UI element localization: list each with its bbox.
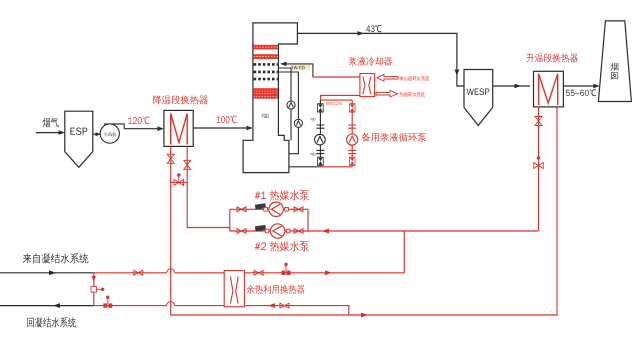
wire: flue gas inlet bbox=[36, 132, 62, 134]
label: ESP text bbox=[70, 128, 87, 135]
wire: hot water to heating HX (bottom line) bbox=[171, 107, 557, 315]
label: label 余热利用换热器 bbox=[247, 285, 305, 294]
heating HX box (升温段换热器) bbox=[534, 71, 564, 107]
valve P1 suction bbox=[237, 207, 246, 212]
wire: slurry pump column (black) bbox=[319, 100, 321, 167]
hot media pump #1 bbox=[269, 202, 283, 216]
flange pair (black bottom) bbox=[316, 150, 324, 153]
wire: ESP to fan bbox=[93, 133, 97, 135]
valve on red column (bottom) bbox=[349, 157, 355, 165]
label: label 浆液冷却器 bbox=[349, 57, 393, 66]
label: tag ND1 bbox=[311, 118, 316, 121]
label: label #1 热媒水泵 bbox=[255, 190, 309, 201]
wire: circulation pump riser 2 bbox=[278, 72, 298, 119]
control valve on supply bbox=[282, 271, 286, 275]
label: 43℃ label bbox=[366, 25, 381, 32]
control valve on jumper bbox=[174, 179, 184, 185]
label: label 来自凝结水系统 bbox=[23, 253, 89, 263]
label: tag text bbox=[291, 66, 304, 69]
hot media pump #2 bbox=[270, 224, 284, 238]
WESP vessel bbox=[464, 70, 493, 126]
label: tag ND2 bbox=[311, 153, 316, 156]
wire: backup pump column (red) bbox=[351, 100, 353, 167]
label: flue gas 烟气 bbox=[43, 118, 59, 128]
valve P2 discharge bbox=[294, 229, 303, 234]
valve on black column (top) bbox=[318, 104, 324, 112]
wire: heating HX left leg down bbox=[538, 107, 540, 231]
tower packing band (thick red) bbox=[254, 88, 278, 99]
valve on right leg bbox=[184, 160, 191, 169]
wire: HX to tower, 100℃ bbox=[193, 127, 249, 129]
wire: makeup drop bbox=[93, 273, 95, 306]
wire: condensate return (red part) bbox=[94, 306, 349, 315]
waste heat HX box 余热利用换热器 bbox=[224, 271, 244, 307]
instrument tag on recycle line bbox=[291, 65, 311, 70]
valve on return bbox=[280, 303, 289, 308]
tower demister band 2 bbox=[254, 71, 278, 74]
fan 引风机 bbox=[100, 124, 119, 143]
valve on left leg bbox=[167, 154, 174, 163]
wire: condensate supply (red part) bbox=[94, 231, 405, 273]
valve on red column (top) bbox=[349, 104, 355, 112]
label: 100℃ label bbox=[217, 116, 237, 124]
wire: cooler outlet down (red) bbox=[321, 95, 360, 100]
wire: heating HX to chimney, 55~60℃ bbox=[563, 85, 596, 87]
wire: cooling HX left leg (red) bbox=[170, 146, 172, 315]
label: label 备用浆液循环泵 bbox=[362, 133, 427, 142]
label: WESP text bbox=[467, 88, 490, 95]
label: label 降温段换热器 bbox=[153, 95, 208, 104]
wire: pump 2 branch / common suction line bbox=[230, 230, 539, 232]
control valve on return bbox=[103, 303, 107, 307]
wire: condensate return (black part) bbox=[0, 305, 94, 307]
wire: legs jumper bbox=[171, 181, 188, 183]
label: label 来自循环水系统 bbox=[400, 76, 430, 81]
tower demister band 3 bbox=[254, 78, 278, 81]
label: 55~60℃ label bbox=[566, 89, 596, 96]
label: label 升温段换热器 bbox=[526, 53, 578, 62]
label: label #2 热媒水泵 bbox=[255, 241, 309, 252]
cooling HX box (降温段换热器) bbox=[164, 110, 193, 146]
tower demister band 1 bbox=[254, 63, 278, 66]
wire: condensate supply (black part) bbox=[0, 272, 94, 274]
strainer P2 bbox=[255, 225, 266, 231]
wire: fan to cooling HX duct, 120℃ bbox=[124, 128, 160, 130]
label: label 到循环水系统 bbox=[400, 92, 426, 97]
control valve on HX2 left leg bbox=[534, 163, 544, 169]
label: pipe tag 5M(12)6 bbox=[326, 102, 342, 106]
label: label 回凝结水系统 bbox=[27, 317, 76, 327]
valve P2 suction bbox=[237, 229, 246, 234]
circulation pump 1 bbox=[287, 101, 295, 109]
wire: cooler inlet (red) bbox=[313, 76, 360, 78]
slurry cooler box 浆液冷却器 bbox=[360, 74, 375, 97]
flange pair (red bottom) bbox=[348, 150, 356, 153]
wire: cooling HX right leg (red) bbox=[187, 146, 230, 227]
tower spray band 2 bbox=[254, 54, 278, 59]
ESP vessel bbox=[65, 111, 93, 167]
hollow arrow: to circulating water bbox=[376, 90, 398, 97]
wire: tower outlet 43℃ to WESP bbox=[297, 33, 464, 86]
strainer P1 bbox=[255, 203, 266, 209]
label: fan text 引风机 bbox=[104, 132, 116, 136]
wire: pump 1 branch bbox=[230, 209, 308, 231]
wire: pump headers interconnect bbox=[320, 99, 352, 101]
valve P1 discharge bbox=[294, 207, 303, 212]
chimney 烟囱 bbox=[598, 21, 631, 102]
label: FGD text bbox=[262, 114, 269, 118]
valve on supply bbox=[134, 270, 143, 275]
flange pair (red top) bbox=[348, 125, 356, 128]
wire: WESP to heating HX bbox=[493, 85, 530, 87]
reducer on makeup drop bbox=[91, 287, 97, 293]
backup slurry pump (red) bbox=[347, 134, 358, 145]
label: 120℃ label bbox=[128, 117, 149, 125]
valve on black column (bottom) bbox=[318, 157, 324, 165]
tower spray band 1 bbox=[254, 45, 278, 50]
flange pair (black top) bbox=[316, 125, 324, 128]
slurry pump (black) bbox=[315, 134, 326, 145]
wire: recycled water into tower bbox=[283, 64, 313, 77]
wire: tank outlet to pumps (red) bbox=[289, 166, 319, 168]
circulation pump 2 bbox=[294, 119, 302, 127]
hollow arrow: from circulating water bbox=[377, 74, 398, 81]
FGD absorber tower outline bbox=[243, 23, 297, 173]
valve on supply 2 bbox=[254, 270, 263, 275]
wire: circulation pump riser 1 bbox=[278, 68, 291, 101]
valve on HX2 left leg bbox=[535, 117, 542, 126]
